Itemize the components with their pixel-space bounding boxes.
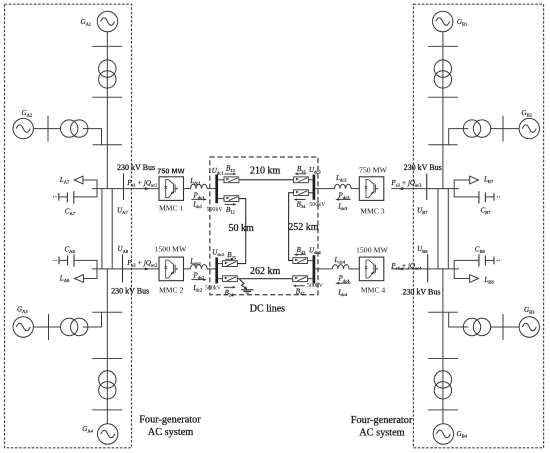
wire: 230kV bus3 horizontal (391, 188, 459, 190)
wire: breaker B42 to bus4 (308, 278, 313, 280)
wire: breaker B43 to bus4 (308, 260, 313, 262)
arrow Pdc1 (192, 198, 204, 200)
DC bus 4 (thick) (313, 255, 316, 283)
arrow B42 (296, 285, 305, 287)
bus tick above T-A4 (92, 358, 122, 360)
bus tick joining GB2 branch (428, 144, 457, 146)
svg-text:50 km: 50 km (229, 223, 255, 234)
arrow B34 (297, 199, 306, 201)
wire: coil to MMC3 (351, 188, 359, 190)
svg-text:MMC 1: MMC 1 (159, 204, 183, 213)
wire: breaker B31 to bus3 (308, 179, 312, 181)
wire: coil to DC bus1 (207, 188, 217, 190)
svg-text:750 MW: 750 MW (157, 167, 184, 176)
breaker B43 (293, 258, 308, 264)
wire: bus1 to breaker B12 (218, 198, 224, 200)
wire: 252 km DC line (corner down) (289, 193, 294, 261)
load LA7 triangle (74, 176, 83, 184)
converter MMC 1 (159, 177, 184, 201)
generator GB1 (433, 11, 453, 31)
wire: double vertical link between bus1 and bus2 (101, 189, 103, 269)
load LB7 triangle (470, 176, 479, 184)
svg-text:262 km: 262 km (250, 266, 281, 277)
bus tick below T-A4 (92, 409, 122, 411)
wire: 210 km DC line (239, 179, 294, 181)
bus tick GA3 branch join (92, 311, 122, 313)
converter MMC 4 (359, 257, 384, 281)
DC bus 1 (thick) (215, 175, 218, 204)
DC lines dashed boundary box (210, 157, 318, 295)
bus tick under GB1 (428, 45, 458, 47)
transformer T-B2 (463, 120, 490, 137)
bus tick GB3 branch (502, 314, 504, 340)
svg-text:MMC 2: MMC 2 (159, 286, 183, 295)
bus measurement tick UA8 (122, 254, 124, 282)
generator GA2 (13, 118, 33, 138)
svg-text:252 km: 252 km (288, 222, 319, 233)
transformer T-B3 (463, 318, 490, 335)
wire: DC bus4 to coil (314, 268, 333, 270)
wire: DC bus3 to coil (314, 188, 335, 190)
generator GA3 (13, 317, 33, 337)
breaker B31 (294, 177, 309, 183)
wire: GA3 to transformer (33, 326, 60, 328)
transformer T-A1 (two stacked circles) (99, 60, 116, 88)
fault ground symbol (241, 290, 253, 293)
wire: LA7 branch (74, 180, 97, 197)
svg-text:500kV: 500kV (205, 285, 222, 291)
wire: GA2 to transformer (33, 128, 60, 130)
wire: MMC1 to coil (184, 188, 191, 190)
generator GB3 (519, 317, 539, 337)
bus tick under T-A1 (92, 96, 122, 98)
wire: CB8 right terminal (485, 259, 494, 261)
svg-text:210 km: 210 km (250, 166, 281, 177)
svg-text:230 kV Bus: 230 kV Bus (111, 286, 149, 295)
wire: T-A2 to main bus with corner (83, 129, 102, 145)
load LA8 triangle (75, 275, 84, 283)
arrow B24 (224, 286, 233, 288)
arrow Pdc2 (192, 279, 204, 281)
wire: coil to MMC4 (349, 268, 359, 270)
wire: bus3 to breaker B34 / 252 km corner (308, 192, 312, 194)
generator GA4 (98, 424, 118, 444)
terminal bar CB8 (493, 257, 495, 265)
arrow Ps2 on wire (145, 267, 150, 270)
svg-text:1500 MW: 1500 MW (155, 244, 187, 253)
wire: CB7 right terminal (485, 196, 494, 198)
capacitor CA7 (67, 191, 73, 203)
arrow B31 (298, 173, 307, 175)
wire: CA7 left terminal (59, 196, 68, 198)
bus tick GA3 branch (48, 314, 50, 340)
transformer T-A4 (stacked) (99, 371, 116, 399)
generator GB2 (519, 118, 539, 138)
svg-text:750 MW: 750 MW (359, 165, 388, 174)
bus tick GB3 branch join (428, 311, 458, 313)
breaker B24 (223, 276, 238, 282)
generator GA1 (97, 11, 117, 31)
capacitor CB8 (479, 254, 486, 266)
terminal dots CB7 (497, 196, 498, 197)
inductor Ldc3 (335, 184, 352, 188)
svg-text:Four-generator: Four-generator (351, 415, 413, 426)
wire: CA8 left terminal (59, 259, 68, 261)
terminal bar CB7 (493, 193, 495, 201)
arrow Pdc4 (339, 282, 351, 284)
wire: double vertical link right (437, 189, 439, 269)
arrow Pdc3 (339, 198, 351, 200)
breaker B21 (223, 261, 238, 267)
breaker B12 (224, 196, 239, 202)
wire: 50 km DC line (corner down) (238, 199, 246, 264)
arrow B21 (225, 258, 231, 260)
terminal dots CA8 (53, 260, 54, 261)
wire: T-B2 to main bus with corner (449, 129, 469, 145)
bus measurement tick UB8 (427, 254, 429, 282)
terminal dots CA7 (53, 196, 54, 197)
svg-text:500kV: 500kV (309, 202, 326, 208)
bus tick under GA1 (92, 45, 122, 47)
svg-text:500kV: 500kV (207, 207, 224, 213)
wire: 262 km DC line (237, 278, 292, 280)
transformer T-B1 (434, 60, 451, 88)
arrow B12 (225, 203, 234, 205)
arrow Ps4 on wire (398, 267, 403, 270)
wire: bus2 to breaker B21 (218, 263, 223, 265)
inductor Ldc2 (191, 265, 208, 269)
wire: LB8 branch (454, 269, 470, 279)
wire: CA8 branch (74, 260, 97, 269)
generator GB4 (433, 424, 453, 444)
arrow B43 (297, 254, 306, 256)
wire: 230kV bus1 horizontal (92, 188, 159, 190)
breaker B42 (293, 276, 308, 282)
transformer T-A3 (60, 318, 87, 335)
svg-text:AC system: AC system (148, 427, 193, 438)
wire: T-A3 to main bus with corner up (83, 312, 102, 327)
svg-text:230 kV Bus: 230 kV Bus (402, 287, 440, 296)
inductor Ldc1 (191, 184, 208, 188)
bus tick joining GA2 branch (93, 144, 122, 146)
capacitor CB7 (479, 191, 486, 203)
wire: left main vertical bus (top half) (106, 32, 108, 189)
terminal bar CA7 (58, 193, 60, 201)
svg-text:DC lines: DC lines (250, 304, 285, 315)
terminal dots CB8 (497, 260, 498, 261)
breaker B34 (294, 190, 309, 196)
transformer T-A2 (two overlapping circles) (60, 120, 87, 137)
wire: right main vertical bus (top half) (442, 32, 444, 189)
wire: T-B3 to main bus corner up (449, 312, 469, 327)
wire: coil to DC bus2 (207, 268, 217, 270)
arrow Ps3 on wire (398, 187, 403, 190)
terminal bar CA8 (58, 257, 60, 265)
wire: 230kV bus2 horizontal (92, 268, 159, 270)
wire: LA8 branch (83, 269, 97, 279)
wire: LB7 branch (454, 180, 479, 197)
svg-text:Four-generator: Four-generator (139, 414, 201, 425)
wire: CB8 branch (454, 260, 479, 269)
converter MMC 2 (159, 257, 184, 281)
capacitor CA8 (68, 254, 74, 266)
converter MMC 3 (359, 177, 384, 201)
transformer T-B4 (434, 371, 451, 399)
svg-text:230 kV Bus: 230 kV Bus (117, 163, 155, 172)
wire: bus1 to breaker B13 (218, 179, 224, 181)
bus tick GB2 branch (502, 116, 504, 142)
wire: GB3 to transformer (491, 326, 519, 328)
wire: right main vertical bus (bottom half) (442, 269, 444, 424)
bus measurement tick UA7 (123, 173, 125, 200)
svg-text:MMC 4: MMC 4 (361, 286, 385, 295)
wire: left main vertical bus (bottom half) (106, 269, 108, 424)
bus measurement tick UB7 (426, 173, 428, 200)
wire: MMC2 to coil (184, 268, 191, 270)
wire: bus2 to breaker B24 (218, 278, 223, 280)
bus tick GA2 branch (47, 116, 49, 142)
load LB8 triangle (470, 275, 479, 283)
bus tick under T-B1 (428, 96, 458, 98)
DC bus 2 (thick) (215, 258, 218, 284)
arrow B13 (225, 173, 234, 175)
fault lightning arrow (240, 279, 246, 288)
svg-text:MMC 3: MMC 3 (360, 206, 384, 215)
left four-generator AC system dashed boundary box (5, 4, 132, 448)
bus tick above T-B4 (428, 358, 458, 360)
DC bus 3 (thick) (313, 175, 316, 200)
bus tick below T-B4 (428, 409, 458, 411)
arrow Ps1 on wire (145, 187, 150, 190)
wire: GB2 to transformer (491, 128, 519, 130)
breaker B13 (224, 177, 239, 183)
right four-generator AC system dashed boundary box (413, 4, 543, 448)
svg-text:230 kV Bus: 230 kV Bus (404, 163, 442, 172)
svg-text:1500 MW: 1500 MW (356, 246, 388, 255)
svg-text:500kV: 500kV (307, 283, 324, 289)
wire: 230kV bus4 horizontal (391, 268, 459, 270)
svg-text:AC system: AC system (359, 428, 404, 439)
inductor Ldc4 (333, 265, 350, 269)
